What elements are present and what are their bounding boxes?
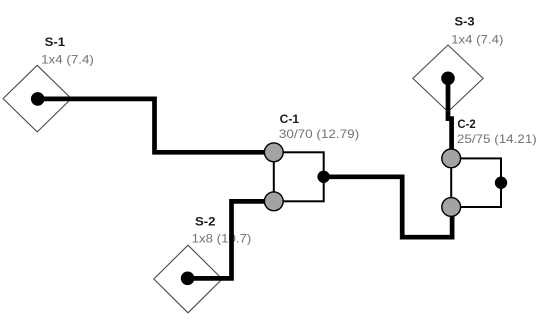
wire C-1 out to C-2 bottom bbox=[324, 177, 453, 237]
svg-text:25/75 (14.21): 25/75 (14.21) bbox=[457, 132, 537, 146]
node C-1 label bbox=[279, 112, 359, 141]
svg-text:1x8 (10.7): 1x8 (10.7) bbox=[192, 232, 252, 246]
svg-text:C-1: C-1 bbox=[280, 112, 300, 126]
node S-3 label bbox=[451, 15, 503, 47]
wire S-3 to C-2 top bbox=[448, 78, 452, 158]
junction dot C-2 bbox=[495, 177, 507, 189]
port circle C-2 bottom bbox=[442, 198, 461, 217]
wire S-1 to C-1 top bbox=[38, 99, 274, 152]
junction dot S-2 bbox=[181, 272, 195, 286]
diamond S-1 bbox=[3, 65, 71, 132]
diamond S-2 bbox=[154, 245, 222, 313]
svg-text:1x4 (7.4): 1x4 (7.4) bbox=[451, 32, 503, 46]
container C-1 rect bbox=[274, 152, 324, 201]
svg-text:30/70 (12.79): 30/70 (12.79) bbox=[279, 127, 359, 141]
node S-1 label bbox=[41, 35, 94, 66]
container C-2 rect bbox=[451, 158, 501, 207]
node S-2 label bbox=[192, 215, 252, 246]
svg-text:C-2: C-2 bbox=[457, 117, 476, 131]
junction dot S-1 bbox=[31, 92, 45, 106]
wire S-2 to C-1 bottom bbox=[188, 201, 274, 278]
junction dot C-1 bbox=[317, 171, 329, 183]
port circle C-1 top bbox=[264, 143, 283, 162]
svg-text:1x4 (7.4): 1x4 (7.4) bbox=[41, 52, 94, 66]
svg-text:S-3: S-3 bbox=[455, 15, 475, 29]
junction dot S-3 bbox=[441, 72, 455, 86]
svg-text:S-2: S-2 bbox=[195, 215, 216, 229]
port circle C-2 top bbox=[442, 149, 461, 168]
diamond S-3 bbox=[413, 45, 483, 112]
node C-2 label bbox=[457, 117, 537, 146]
port circle C-1 bottom bbox=[264, 192, 283, 211]
svg-text:S-1: S-1 bbox=[45, 35, 66, 49]
